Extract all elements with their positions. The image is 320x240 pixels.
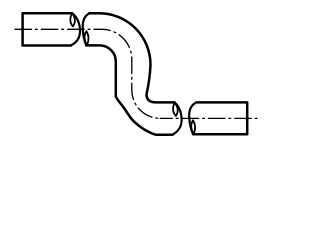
right pipe break curve (big arc) bbox=[189, 102, 197, 134]
left pipe break ear (top lens) bbox=[70, 13, 75, 26]
bent pipe break ear at right end (top lens) bbox=[173, 103, 178, 116]
bent pipe break curve at left end (big arc) bbox=[83, 13, 90, 45]
bent pipe inner wall (bottom edge, bend 1 inner arc, left edge, bend 2 outer arc, bottom-section bottom edge) bbox=[86, 45, 172, 134]
centerline (dash-dot: lower horizontal through right pipe) bbox=[160, 117, 258, 119]
right pipe body (outline) bbox=[193, 102, 247, 134]
bent pipe outer wall (top edge, bend 1 outer arc, right edge, bend 2 inner corner, bottom-section top edge) bbox=[90, 13, 175, 102]
left pipe body (outline) bbox=[23, 13, 73, 45]
centerline (dash-dot: left pipe + S-bend) bbox=[15, 29, 160, 118]
bent pipe break curve at right end (big arc) bbox=[173, 103, 182, 135]
bent pipe break ear at left end (bottom lens) bbox=[85, 31, 89, 45]
right pipe break ear (bottom lens) bbox=[191, 120, 195, 134]
left pipe break curve (S-break big arc) bbox=[71, 13, 80, 45]
